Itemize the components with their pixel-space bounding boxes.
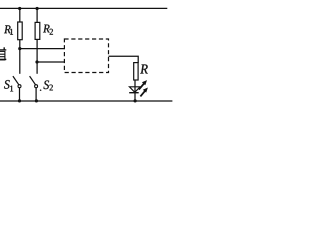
wire node B down to switch S2: [36, 62, 38, 74]
resistor R: [134, 63, 138, 80]
node junction top of R2: [36, 7, 39, 10]
speck left of S2: [40, 89, 42, 91]
label R1: [4, 25, 11, 33]
LED light arrow 2: [140, 88, 148, 97]
wire top rail: [0, 7, 167, 9]
wire R1 bottom lead to node A: [19, 40, 21, 50]
resistor R2: [35, 22, 40, 39]
label S1: [4, 80, 10, 89]
node S2 bottom junction: [35, 99, 38, 102]
switch S1 lever: [13, 76, 19, 85]
label R2: [43, 25, 50, 33]
label S2: [44, 81, 50, 90]
IC dashed box: [64, 39, 108, 73]
LED light arrow 1: [139, 80, 147, 90]
wire S1 to bottom rail: [19, 88, 21, 101]
wire R1 top lead: [19, 8, 21, 22]
node junction top of R1: [18, 7, 21, 10]
label R: [140, 65, 148, 74]
switch S2 contact circle: [35, 85, 38, 88]
wire node A down to switch S1: [19, 49, 21, 74]
wire bottom rail: [0, 100, 172, 102]
LED cathode bar: [129, 92, 139, 94]
wire node A to box input 1: [20, 48, 65, 50]
wire box output to resistor R: [109, 56, 139, 63]
wire S2 to bottom rail: [35, 88, 37, 101]
node A junction: [18, 47, 21, 50]
LED triangle: [129, 87, 140, 93]
clipped Chinese character fragment at left edge: [0, 47, 6, 60]
switch S1 contact circle: [18, 85, 21, 88]
wire node B to box input 2: [37, 61, 64, 63]
node LED bottom junction: [134, 99, 137, 102]
switch S2 lever: [30, 76, 36, 85]
node B junction: [35, 60, 38, 63]
wire R2 bottom lead to node B: [36, 39, 38, 62]
node S1 bottom junction: [18, 99, 21, 102]
wire R bottom through LED to bottom rail: [134, 80, 136, 101]
resistor R1: [18, 22, 23, 40]
wire R2 top lead: [36, 8, 38, 22]
